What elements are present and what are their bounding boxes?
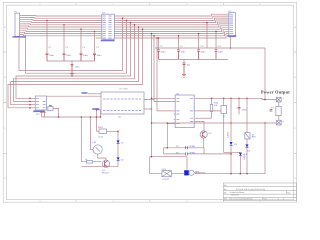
wire VCC rail to terminal 1 xyxy=(265,48,276,100)
wire C13 top lead xyxy=(238,98,240,107)
junction R2 feed xyxy=(81,116,83,118)
capacitor C3 xyxy=(63,53,66,61)
svg-text:BC547: BC547 xyxy=(102,172,109,174)
junction node x=231 xyxy=(230,153,232,155)
relay K1 xyxy=(245,133,250,139)
IC2 pin name text xyxy=(36,98,45,108)
wire U1 pin to P2 pin 4 xyxy=(116,20,229,23)
wire VCC drop to K1 xyxy=(246,98,248,132)
junction ground rail x=151.5 xyxy=(151,122,153,124)
junction bottom rail x=240.3 xyxy=(240,173,242,175)
capacitor C7 load caps xyxy=(40,111,46,113)
junction VCC net x=211.5 xyxy=(211,98,213,100)
wire stub U1 pin 11 xyxy=(96,37,101,39)
U1 pin name text columns xyxy=(103,16,112,38)
op-amp U3 (driver IC) xyxy=(175,95,194,128)
terminal J3 pin 1 xyxy=(276,97,281,102)
wire U1 pin to P2 pin 3 xyxy=(116,18,229,20)
svg-text:Sh: Sh xyxy=(224,193,226,195)
junction VCC net x=223.7 xyxy=(223,98,225,100)
junction ground rail x=167.3 xyxy=(167,122,169,124)
junction LS1 feed xyxy=(90,116,92,118)
LED D4 xyxy=(246,144,249,147)
wire opto row left xyxy=(150,173,184,175)
junction U2 right pin lower xyxy=(151,108,153,110)
wire ground rail y123 xyxy=(152,122,277,124)
svg-text:100n: 100n xyxy=(75,67,81,69)
wire U1 pin to P2 pin 2 xyxy=(116,16,229,18)
svg-text:4: 4 xyxy=(283,199,284,201)
U1 name label bar xyxy=(101,40,115,42)
U1 left pins xyxy=(100,16,101,38)
op-amp U1 (MCU/driver IC) xyxy=(102,13,115,40)
wire bus drop to U3 pin 2 xyxy=(154,36,174,102)
svg-text:Tastenfeld: Tastenfeld xyxy=(231,193,239,196)
wire U2 right pin lower xyxy=(144,108,152,110)
junction VCC at terminal 1 xyxy=(264,99,266,101)
capacitor C6 xyxy=(71,64,74,72)
IC2 name label bar xyxy=(33,111,45,113)
wire LS1 left lead xyxy=(90,149,93,151)
junction node at U2 drop xyxy=(100,116,102,118)
capacitor C11 xyxy=(215,50,218,60)
svg-text:100n: 100n xyxy=(97,55,103,57)
wire SW1 to LED chain xyxy=(107,130,119,132)
P2 pin name text column xyxy=(230,14,233,33)
junction bus drop x=154 xyxy=(153,35,155,37)
wire jumper row JP1 xyxy=(164,147,204,149)
junction wrap attach x=130.5 xyxy=(130,22,132,24)
wire U1 pin to P2 pin 8 xyxy=(116,28,229,32)
wire U3 pin to Q2 xyxy=(196,121,204,130)
wire drop to capacitor C8 xyxy=(158,38,160,49)
transistor Q2 xyxy=(200,131,207,138)
svg-text:Rev: Rev xyxy=(287,193,290,195)
junction at C5 drop xyxy=(94,31,96,33)
wire P2 VCC pin to rail xyxy=(230,37,232,48)
crystal Q3 xyxy=(48,106,53,111)
optocoupler OK1 xyxy=(162,171,172,177)
svg-text:100n: 100n xyxy=(181,52,187,54)
connector P1 xyxy=(15,12,20,37)
wire wrap to IC2 pin 1 xyxy=(16,23,131,99)
wire P1 bottom wrap 1 xyxy=(19,18,123,70)
connector P1 pins xyxy=(20,16,22,35)
oscillator X1 xyxy=(221,106,227,114)
wire D2 to emitter rail xyxy=(117,161,119,167)
wire P1 pin 6 to U1 xyxy=(22,26,101,27)
wire V1 to bottom rail xyxy=(204,172,206,175)
junction at C2 drop xyxy=(46,20,48,22)
svg-text:reset: reset xyxy=(98,136,103,139)
LED D3 xyxy=(230,142,233,145)
wire C13 bottom lead xyxy=(238,109,240,115)
junction bottom rail x=247 xyxy=(246,173,248,175)
wire P1 pin 10 to U1 xyxy=(22,34,101,35)
wire D3 to node xyxy=(230,145,232,154)
wire P1 pin 2 to U1 xyxy=(22,17,101,20)
wire P1 pin 5 to U1 xyxy=(22,23,101,26)
junction wrap attach x=126.5 xyxy=(126,20,128,22)
ground xyxy=(182,73,186,78)
wire U1 pin to P2 pin 9 xyxy=(116,30,229,34)
wire X1 down to D5 xyxy=(224,114,241,153)
wire drop to capacitor C3 xyxy=(63,25,65,53)
wire U1 pin to P2 pin 5 xyxy=(116,22,229,25)
junction opto feed xyxy=(151,156,153,158)
wire P1 pin 1 to U1 xyxy=(22,15,101,18)
net label bar at U2 left pin xyxy=(92,108,99,110)
resistor R10 xyxy=(210,105,212,112)
svg-text:100n: 100n xyxy=(49,55,55,57)
wire wrap to IC2 pin 2 xyxy=(13,25,134,102)
svg-text:Power Output: Power Output xyxy=(261,89,290,94)
junction LED chain top xyxy=(117,131,119,133)
photodetector V1 xyxy=(189,170,194,175)
junction at C3 drop xyxy=(63,24,65,26)
wire U3 VCC net to power output xyxy=(196,98,265,99)
wire P1 pin 3 to U1 xyxy=(22,19,101,22)
wire wrap to IC2 pin 3 xyxy=(11,27,139,105)
junction wrap attach x=138.5 xyxy=(138,26,140,28)
junction C11 drop xyxy=(215,31,217,33)
wire R10 leads xyxy=(211,98,213,118)
wire U1 pin to P2 pin 10 xyxy=(116,32,229,36)
fuse F1 xyxy=(276,107,281,116)
wire U2 pin down to SW1 xyxy=(97,110,100,131)
wire P1 pin 9 to U1 xyxy=(22,32,101,33)
wire to LED D1 xyxy=(117,132,119,141)
wire V1 right lead xyxy=(150,157,205,174)
wire P1 bottom wrap 2 xyxy=(26,20,127,73)
junction drop near P2 xyxy=(206,22,208,24)
op-amp U2 (latch IC) xyxy=(101,92,144,114)
LED D6 xyxy=(184,170,189,175)
wire F1 to terminal 2 xyxy=(278,116,280,121)
wire VCC rail xyxy=(155,47,265,49)
wire drop to capacitor C5 xyxy=(94,31,96,52)
wire left cap bottom rail xyxy=(47,61,95,64)
junction jumper node xyxy=(167,147,169,149)
capacitor C9 xyxy=(177,50,180,60)
capacitor C8 xyxy=(157,50,160,60)
svg-text:100n: 100n xyxy=(218,52,224,54)
junction wrap attach x=142.5 xyxy=(142,28,144,30)
junction C9 drop xyxy=(178,35,180,37)
wire crystal to node xyxy=(53,109,59,118)
wire right cap bottom rail xyxy=(159,59,229,62)
transceiver IC2 xyxy=(35,96,46,110)
wire P1 pin 4 to U1 xyxy=(22,21,101,24)
capacitor C10 xyxy=(197,50,200,60)
capacitor C13 xyxy=(238,107,241,108)
connector P2 name label bar xyxy=(227,35,236,36)
junction IC2 pin 2 xyxy=(29,101,31,103)
junction bus drop x=151.5 xyxy=(151,98,153,100)
svg-text:PC817: PC817 xyxy=(163,179,170,181)
junction bus drop x=151.5 xyxy=(151,33,153,35)
wire Q1 emitter rail xyxy=(82,166,119,169)
buzzer LS1 xyxy=(93,145,102,154)
junction C10 drop xyxy=(198,33,200,35)
junction IC2 pin 1 xyxy=(29,98,31,100)
wire U3 pin to jumper node xyxy=(167,124,174,148)
junction ground rail x=231 xyxy=(230,122,232,124)
svg-text:LED1: LED1 xyxy=(228,131,230,137)
wire U3 pin to R10 xyxy=(196,117,212,119)
junction bottom rail x=231 xyxy=(230,173,232,175)
junction bus drop x=157 xyxy=(156,37,158,39)
net label at U2 upper left xyxy=(82,92,88,94)
wire D4 to bottom rail xyxy=(246,148,248,174)
svg-text:Sheet:: Sheet: xyxy=(262,198,268,201)
junction wrap attach x=134.5 xyxy=(134,24,136,26)
svg-text:File: Trans Tastenfeld SirTobi: File: Trans Tastenfeld SirTobi xyxy=(230,198,254,201)
wire LS1 to Q1 collector xyxy=(98,154,106,160)
junction VCC net x=239 xyxy=(238,98,240,100)
wire D1 to D2 xyxy=(117,144,119,157)
wire node to LS1 xyxy=(89,117,91,150)
wire bottom ground rail xyxy=(195,173,265,175)
wire drop to capacitor C9 xyxy=(178,36,180,50)
wire U1 pin to P2 pin 1 xyxy=(116,14,229,16)
wire Q2 emitter down xyxy=(203,138,205,148)
wire bus drop to opto row xyxy=(150,34,187,170)
wire U2 right pin upper xyxy=(144,98,154,100)
LED D1 xyxy=(117,140,120,143)
connector P1 name label bar xyxy=(12,36,26,37)
capacitor mark at F1 xyxy=(270,110,273,111)
U3 right pins xyxy=(194,98,196,121)
junction IC2 pin 4 xyxy=(29,107,31,109)
wire X1 to VCC xyxy=(223,98,225,105)
junction IC2 pin 3 xyxy=(29,104,31,106)
wire node to bottom rail xyxy=(230,154,232,174)
wire P1 pin 7 to U1 xyxy=(22,28,101,29)
LED D5 xyxy=(239,153,242,156)
wire U1 pin to P2 pin 11 xyxy=(116,34,229,38)
switch SW1 xyxy=(99,129,107,134)
wire drop to capacitor C11 xyxy=(215,31,217,49)
junction C8 drop xyxy=(158,37,160,39)
capacitor C4 xyxy=(80,53,83,61)
IC2 left pins xyxy=(30,98,35,108)
svg-text:KiCad E.D.A. kicad (2010-05-0: KiCad E.D.A. kicad (2010-05-05) xyxy=(236,188,265,191)
wire to U3 pin 1 xyxy=(152,97,174,99)
wire drop to capacitor C4 xyxy=(80,29,82,52)
svg-text:100n: 100n xyxy=(161,52,167,54)
wire jumper left link xyxy=(164,148,168,154)
svg-text:SW1: SW1 xyxy=(98,127,104,129)
wire wrap to IC2 pin 4 xyxy=(8,29,143,108)
svg-text:OPEN: OPEN xyxy=(189,152,196,154)
junction wrap attach x=122.5 xyxy=(122,17,124,19)
ground xyxy=(70,72,74,77)
wire R2 leads xyxy=(81,161,101,163)
svg-text:OPEN: OPEN xyxy=(189,146,196,148)
capacitor C12 xyxy=(183,63,186,73)
wire bus drop to U3 pin 3 xyxy=(157,38,174,111)
wire drop to capacitor C10 xyxy=(198,34,200,50)
wire net into U2 upper left xyxy=(88,93,101,95)
wire ground rail down right xyxy=(264,123,266,174)
wire U1 pin to P2 pin 7 xyxy=(116,26,229,29)
wire VCC drop to D3 xyxy=(230,98,232,141)
svg-text:100n: 100n xyxy=(242,110,248,112)
svg-text:100n: 100n xyxy=(66,55,72,57)
capacitor C2 xyxy=(46,53,49,61)
wire drop near P2 xyxy=(206,23,208,48)
wire U3 pin to X1 xyxy=(196,110,221,112)
U1 right pins xyxy=(114,16,115,38)
wire node to R2 xyxy=(80,117,82,162)
capacitor C5 xyxy=(93,53,96,61)
wire jumper row JP2 xyxy=(164,148,232,154)
LED D2 xyxy=(117,157,120,160)
jumper JP1 JP2 pads xyxy=(186,146,188,155)
junction VCC net x=247 xyxy=(246,98,248,100)
svg-text:100n: 100n xyxy=(83,55,89,57)
wire terminal 1 to F1 xyxy=(278,102,280,107)
junction node at y117 xyxy=(96,116,98,118)
wire drop to capacitor C2 xyxy=(46,20,48,52)
svg-text:2: 2 xyxy=(278,199,279,201)
wire P1 pin 8 to U1 xyxy=(22,30,101,31)
wire node to U2 lower pin xyxy=(42,110,101,117)
U3 left pins xyxy=(174,98,175,123)
junction VCC net x=231 xyxy=(230,98,232,100)
junction P2 VCC xyxy=(230,47,232,49)
junction U2 left pin xyxy=(96,109,98,111)
svg-text:U2 74HC: U2 74HC xyxy=(119,89,128,91)
wire K1 to D4 xyxy=(246,139,248,144)
wire load caps to node xyxy=(42,113,45,117)
wire D5 to bottom rail xyxy=(239,156,241,174)
wire IC2 top to U2 xyxy=(47,95,101,97)
svg-text:100n: 100n xyxy=(201,52,207,54)
junction crystal node xyxy=(58,116,60,118)
connector P2 xyxy=(229,11,236,37)
junction ground rail x=265 xyxy=(264,122,266,124)
wire U1 pin to P2 pin 6 xyxy=(116,24,229,27)
junction at C4 drop xyxy=(80,28,82,30)
transistor Q1 xyxy=(102,160,109,167)
wire U2 left pin xyxy=(97,109,102,111)
resistor R2 xyxy=(87,161,93,164)
terminal J3 pin 2 xyxy=(276,120,281,125)
